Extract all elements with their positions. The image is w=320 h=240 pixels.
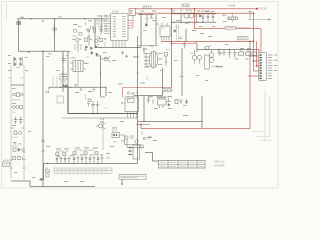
wire standby secondary bus bbox=[172, 13, 216, 15]
table terminal strip bbox=[54, 168, 112, 173]
node j3 bbox=[30, 18, 31, 19]
IC U1 PWM controller bbox=[111, 14, 129, 41]
resistor network RN1 cluster bbox=[73, 22, 107, 51]
transformer T3 standby bbox=[182, 10, 196, 18]
wire center rail bbox=[137, 36, 139, 164]
wire red connector stub 1 bbox=[250, 55, 259, 57]
node j17 bbox=[105, 87, 106, 88]
node j18 bbox=[73, 163, 74, 164]
node j13 bbox=[196, 22, 197, 23]
label hatched box top2 bbox=[182, 4, 189, 7]
node red junction r11 bbox=[256, 65, 258, 67]
transformer T4 output choke bbox=[209, 50, 214, 63]
wire line input drop bbox=[18, 19, 20, 51]
transistor Q5 bbox=[96, 123, 106, 129]
connector J2 ATX main bbox=[258, 53, 266, 81]
node j20 bbox=[97, 163, 98, 164]
node j21 bbox=[47, 163, 48, 164]
wire standby drop bbox=[180, 14, 182, 22]
resistor R9 row bbox=[13, 157, 23, 160]
wire red remote drop bbox=[122, 88, 124, 98]
wire drive rail bbox=[140, 13, 142, 47]
label hatched box top1 bbox=[143, 6, 151, 9]
wire y118 bus bbox=[62, 117, 138, 119]
transistor Q7 sense bbox=[204, 46, 212, 50]
connector J3 fan bbox=[128, 145, 139, 159]
fuse F1 bbox=[17, 22, 21, 25]
wire base divider col1 bbox=[52, 76, 54, 87]
node VREF box pins bbox=[130, 10, 132, 14]
node j7 bbox=[137, 113, 138, 114]
node j4 bbox=[42, 51, 43, 52]
wire red IC pin stubs bbox=[128, 15, 133, 28]
diode D11 cluster bbox=[146, 15, 187, 49]
wire standby lower bus bbox=[171, 21, 217, 23]
connector J2 pins bbox=[260, 54, 262, 79]
node j8 bbox=[143, 121, 144, 122]
wire supervisor bus bbox=[138, 121, 203, 123]
wire doubler mid bbox=[49, 87, 106, 89]
wire bulk cap positive bbox=[62, 51, 64, 92]
node j12 bbox=[188, 22, 189, 23]
wire red aux rail bbox=[172, 41, 197, 43]
bridge rectifier BD1 bbox=[14, 57, 23, 68]
wire primary return bbox=[134, 95, 163, 97]
wire transformer return bbox=[162, 68, 164, 96]
svg-text:D9 C22 C23: D9 C22 C23 bbox=[197, 11, 210, 13]
node j23 bbox=[229, 49, 230, 50]
label box conn note bbox=[225, 26, 250, 29]
wire base divider col3 bbox=[60, 76, 62, 87]
node red junction r5 bbox=[253, 12, 255, 14]
capacitor C6 bulk bbox=[60, 70, 67, 80]
IC U1 bottom pins bbox=[113, 41, 125, 48]
wire bulk negative horizontal bbox=[68, 113, 138, 115]
node j22 bbox=[218, 49, 219, 50]
IC U5 supervisor bbox=[158, 97, 172, 109]
wire red top rail 5VSB bbox=[136, 8, 258, 10]
node red junction r3 bbox=[249, 41, 251, 43]
svg-text:TL494: TL494 bbox=[112, 12, 119, 14]
wire faint inset border right bbox=[252, 90, 272, 141]
wire under IC bus bbox=[95, 47, 141, 49]
wire red connector drop D bbox=[253, 13, 255, 71]
wire red connector drop I bbox=[256, 41, 258, 66]
wire label stub bbox=[121, 179, 123, 184]
capacitor C5 bulk bbox=[61, 54, 68, 65]
wire gray sense line bbox=[248, 19, 271, 21]
capacitor C0 tick bbox=[42, 19, 44, 22]
resistor R30 row bbox=[239, 50, 257, 56]
transistor Q8 bbox=[46, 170, 50, 177]
wire rectified bus bbox=[19, 50, 71, 52]
svg-text:PS-ON: PS-ON bbox=[259, 9, 267, 11]
connector J2 pin labels bbox=[268, 55, 277, 79]
wire opto drop bbox=[185, 29, 187, 42]
transformer T1 driver bbox=[70, 61, 86, 72]
wire red PSON branch right bbox=[235, 29, 261, 53]
svg-text:R40: R40 bbox=[152, 11, 157, 13]
wire connector feed bbox=[258, 50, 260, 54]
resistor R50 hatched bbox=[228, 14, 237, 23]
svg-text:L4 R77: L4 R77 bbox=[211, 67, 219, 69]
diode D15 remote cluster bbox=[127, 90, 137, 103]
svg-text:+5VSB: +5VSB bbox=[228, 6, 236, 8]
wire supervisor drop bbox=[143, 96, 145, 122]
node j19 bbox=[85, 163, 86, 164]
node j25 bbox=[97, 113, 98, 114]
wire X-cap branch bbox=[54, 19, 56, 52]
label box aux bbox=[57, 96, 64, 103]
varistor RV1 cluster bbox=[12, 105, 22, 109]
node red junction r9 bbox=[249, 55, 251, 57]
wire T1 return bbox=[77, 72, 79, 87]
wire red connector stub 2 bbox=[254, 60, 260, 62]
wire red second rail bbox=[136, 12, 254, 14]
svg-text:R33: R33 bbox=[143, 49, 148, 51]
IC U2 standby regulator bbox=[160, 23, 170, 41]
node j1 bbox=[54, 18, 55, 19]
wire switch rail bbox=[100, 56, 102, 97]
wire sense drop bbox=[196, 44, 198, 53]
capacitor C40 cluster bbox=[147, 96, 153, 104]
wire red connector drop E bbox=[249, 41, 251, 56]
wire standby top link bbox=[138, 14, 154, 16]
node red junction r8 bbox=[140, 124, 142, 126]
node j16 bbox=[60, 87, 61, 88]
resistor R3 divider arrows bbox=[46, 84, 95, 93]
svg-text:TH1 RV1: TH1 RV1 bbox=[12, 100, 21, 102]
wire faint left margin line bbox=[6, 3, 8, 18]
node j15 bbox=[70, 87, 71, 88]
wire table link bbox=[145, 153, 159, 162]
wire startup stub bbox=[85, 94, 87, 99]
wire bulk cap negative bbox=[67, 51, 69, 87]
IC U3 opto box bbox=[112, 133, 141, 145]
wire base divider col4 bbox=[64, 76, 66, 87]
label box note bbox=[119, 175, 146, 180]
node red junction r6 bbox=[171, 43, 173, 45]
svg-text:RL1: RL1 bbox=[121, 103, 126, 105]
node red junction r2 bbox=[194, 8, 196, 10]
wire cap center drop bbox=[105, 87, 107, 96]
wire sense rail bbox=[201, 96, 203, 128]
node j5 bbox=[137, 47, 138, 48]
transistor Q1 drive cluster bbox=[72, 34, 102, 52]
wire red bottom bus K bbox=[141, 127, 250, 130]
svg-text:POWER: POWER bbox=[214, 164, 225, 168]
wire red feedback rail bbox=[161, 40, 254, 42]
wire red PSON branch bbox=[195, 9, 226, 29]
svg-text:REMOTE: REMOTE bbox=[163, 90, 173, 92]
inductor L1 common mode cluster bbox=[12, 128, 25, 135]
svg-text:R16 1k: R16 1k bbox=[96, 24, 104, 26]
node j9 bbox=[201, 121, 202, 122]
wire AC top bus bbox=[17, 18, 104, 20]
snubber R21 C21 bbox=[165, 53, 168, 67]
wire T2 feed bbox=[143, 48, 145, 54]
connector J1 AC inlet bbox=[3, 162, 12, 167]
wire heater drop bbox=[43, 164, 45, 181]
svg-text:D31 D32 C51: D31 D32 C51 bbox=[56, 151, 69, 153]
IC U1 inner pins bbox=[113, 17, 126, 37]
transistor Q2 switch bbox=[91, 47, 128, 74]
capacitor C30 output bbox=[228, 50, 237, 59]
wire bottom return bbox=[30, 186, 95, 188]
node VREF red box bbox=[129, 8, 136, 15]
wire red remote link bbox=[123, 87, 172, 89]
node j14 bbox=[202, 22, 203, 23]
capacitor CY1 pair bbox=[14, 117, 23, 125]
svg-text:C45: C45 bbox=[100, 119, 105, 121]
wire left EMI rail L bbox=[10, 65, 12, 179]
page border frame bbox=[2, 2, 279, 189]
diode D20 output rectifiers bbox=[218, 50, 226, 56]
node red junction r10 bbox=[253, 60, 255, 62]
sense network R40 bbox=[175, 99, 188, 104]
wire bulk cap negative thick bbox=[67, 87, 69, 113]
node j6 bbox=[137, 72, 138, 73]
wire standby return bbox=[138, 45, 158, 47]
svg-text:R62: R62 bbox=[100, 122, 105, 124]
table revision block bbox=[159, 161, 206, 169]
wire secondary rail bbox=[181, 48, 183, 96]
output filter row bottom bbox=[56, 152, 104, 164]
svg-text:U5 TPS3510: U5 TPS3510 bbox=[156, 97, 170, 99]
wire left EMI rail N bbox=[23, 65, 25, 181]
diode D30 bbox=[39, 178, 44, 181]
wire primary ground rail bbox=[42, 51, 44, 186]
relay box K1 bbox=[125, 97, 139, 118]
label box PS-ON bbox=[163, 88, 172, 91]
wire red bottom corner L bbox=[140, 124, 142, 128]
svg-text:C52 R81 L5 C53 R82: C52 R81 L5 C53 R82 bbox=[74, 150, 95, 152]
capacitor C1 on X branch bbox=[52, 24, 57, 34]
node j24 bbox=[92, 113, 93, 114]
IC U1 left pin stubs bbox=[104, 16, 111, 34]
transistor Q6 bbox=[125, 135, 144, 148]
capacitor C10 cluster bbox=[86, 26, 103, 35]
capacitor C60 ticks bbox=[42, 140, 45, 151]
svg-text:GND: GND bbox=[140, 83, 145, 85]
wire faint standby stubs bbox=[177, 24, 179, 41]
wire secondary ground bus bbox=[43, 163, 138, 165]
diode D10 standby secondary bbox=[195, 14, 215, 22]
svg-text:R15 C12: R15 C12 bbox=[96, 21, 106, 23]
capacitor C8 pair bbox=[87, 99, 100, 114]
wire base divider col2 bbox=[56, 76, 58, 87]
node red junction r7 bbox=[253, 41, 255, 43]
svg-text:AC IN: AC IN bbox=[3, 159, 9, 162]
wire red connector stub 4 bbox=[248, 75, 259, 77]
thermistor TH1 cluster bbox=[13, 93, 24, 97]
wire output top rail bbox=[197, 49, 259, 51]
node j10 bbox=[173, 22, 174, 23]
IC U4 opto secondary bbox=[192, 50, 209, 70]
wire PWM feed bbox=[94, 19, 96, 48]
svg-text:L2 C4: L2 C4 bbox=[12, 137, 18, 139]
wire red connector stub 3b bbox=[254, 70, 260, 72]
label hatched box mid bbox=[238, 36, 249, 40]
node rail ticks bbox=[10, 152, 26, 168]
diode D3 cluster bbox=[86, 45, 98, 49]
wire snubber drop bbox=[155, 15, 157, 46]
svg-text:817C: 817C bbox=[112, 131, 118, 133]
text labels scatter bbox=[3, 6, 267, 171]
node red junction r4 bbox=[256, 8, 258, 10]
svg-text:D5 D6: D5 D6 bbox=[12, 146, 19, 148]
wire red connector stub 3 bbox=[257, 65, 260, 67]
wire aux rail bbox=[102, 121, 104, 150]
node j2 bbox=[84, 18, 85, 19]
switch SW1 mark bbox=[249, 11, 252, 20]
wire red standby drop bbox=[171, 9, 173, 88]
transformer T2 main bbox=[144, 51, 163, 68]
text dash speckles bbox=[8, 11, 251, 182]
diode D7 row bbox=[13, 148, 24, 151]
IC U1 pin components column bbox=[101, 15, 108, 32]
svg-text:C14: C14 bbox=[98, 27, 103, 29]
svg-text:R51: R51 bbox=[222, 15, 227, 17]
wire red long drop J bbox=[249, 56, 251, 128]
resistor R64 below red bus bbox=[142, 132, 152, 140]
node j11 bbox=[180, 22, 181, 23]
node red junction r1 bbox=[171, 8, 173, 10]
wire emi mid link bbox=[11, 84, 24, 86]
svg-text:C30: C30 bbox=[140, 11, 145, 13]
wire bottom left link bbox=[11, 181, 30, 187]
node bottom stub dot bbox=[121, 183, 123, 185]
wire supervisor link bbox=[136, 123, 150, 125]
